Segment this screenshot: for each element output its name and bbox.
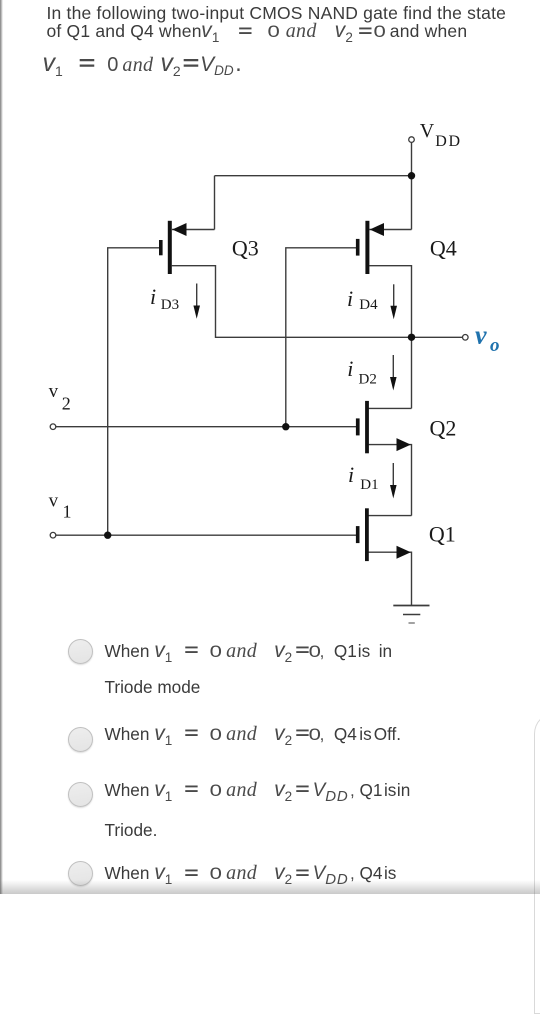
svg-text:v: v (49, 381, 59, 402)
svg-text:v: v (49, 490, 59, 511)
svg-text:i: i (347, 286, 353, 311)
svg-text:D1: D1 (360, 477, 378, 493)
svg-text:Q2: Q2 (430, 416, 457, 441)
svg-text:V: V (420, 120, 435, 142)
svg-text:D3: D3 (161, 297, 179, 313)
svg-text:i: i (347, 356, 353, 381)
svg-text:1: 1 (63, 502, 72, 522)
svg-text:DD: DD (435, 133, 462, 150)
svg-text:D2: D2 (359, 371, 377, 387)
svg-text:2: 2 (62, 394, 71, 414)
svg-text:i: i (348, 462, 354, 487)
svg-text:D4: D4 (359, 297, 378, 313)
svg-text:v: v (475, 321, 487, 350)
svg-text:Q3: Q3 (232, 236, 259, 261)
svg-text:i: i (150, 284, 156, 309)
svg-text:o: o (490, 335, 500, 356)
svg-text:Q4: Q4 (430, 236, 457, 261)
svg-text:Q1: Q1 (429, 522, 456, 547)
